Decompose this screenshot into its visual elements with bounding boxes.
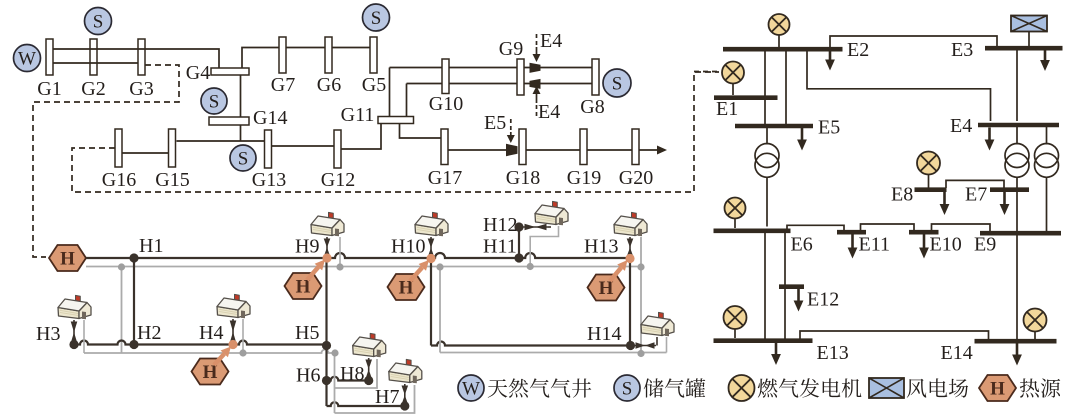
compressor on G9-G8 lower pipe <box>530 79 541 89</box>
node G13 bar <box>265 130 272 168</box>
heat return row H3-H5 <box>84 350 335 354</box>
heat return H9 <box>339 237 341 267</box>
node H12 <box>514 222 523 231</box>
heat supply H13-H14 <box>629 259 631 346</box>
svg-text:G17: G17 <box>428 167 462 189</box>
house load H12 <box>523 201 568 230</box>
svg-text:H14: H14 <box>587 323 621 345</box>
wire E6-E11 <box>787 225 844 230</box>
bus E5 <box>735 124 813 129</box>
node H8 <box>364 376 373 385</box>
label H9 <box>295 236 319 258</box>
bus E8 <box>915 187 947 192</box>
heat supply H1-H2 <box>133 258 135 345</box>
bus E3 <box>985 46 1063 51</box>
node H10 orange <box>426 254 435 263</box>
dashed gas-to-heat coupling G3 to heat source <box>33 65 179 257</box>
legend label wind farm <box>907 378 968 397</box>
label E14 <box>941 342 973 364</box>
svg-text:H4: H4 <box>199 322 223 344</box>
natural gas well W at G1 <box>14 45 41 72</box>
svg-text:H5: H5 <box>295 322 319 344</box>
node G9 bar <box>517 59 524 95</box>
wind farm at E3 <box>1011 16 1047 47</box>
node H1 <box>129 253 138 262</box>
label G2 <box>81 78 105 100</box>
gas generator at E6 <box>725 198 746 229</box>
heat source hexagon at H13 <box>588 275 625 301</box>
load arrow at E13 <box>771 343 781 366</box>
pipe G9-G8 lower <box>524 83 592 85</box>
svg-text:E5: E5 <box>484 112 506 134</box>
label G18 <box>506 167 540 189</box>
heat source hexagon at H9 <box>285 273 322 299</box>
node G11 bar <box>378 117 414 124</box>
svg-text:S: S <box>622 379 633 400</box>
pipe G11-G17 <box>400 124 443 139</box>
label H11 <box>483 236 517 258</box>
label E4 drive upper <box>533 30 563 62</box>
pipe G1-G3 upper and riser to G4 <box>53 49 219 68</box>
bus E6 <box>714 229 791 234</box>
heat arrow into H13 <box>610 260 628 281</box>
bus E13 <box>714 338 813 343</box>
gas generator at E2 <box>769 14 790 47</box>
label G4 <box>186 62 210 84</box>
svg-text:G6: G6 <box>317 74 341 96</box>
svg-text:G5: G5 <box>362 74 386 96</box>
svg-text:G3: G3 <box>129 78 153 100</box>
load arrow at E12 <box>794 289 804 312</box>
svg-text:S: S <box>612 74 623 95</box>
node G3 bar <box>138 39 145 75</box>
node G18 bar <box>519 129 526 165</box>
svg-text:H3: H3 <box>36 323 60 345</box>
svg-text:G4: G4 <box>186 62 210 84</box>
heat return H13 drop <box>640 237 642 353</box>
house load H4 <box>217 294 250 344</box>
label G15 <box>155 169 189 191</box>
heat supply H12-H11 <box>518 227 520 258</box>
node H14 <box>626 341 635 350</box>
wire E3-E4 via transformer column <box>1016 51 1018 122</box>
load arrow at E10 <box>919 234 929 259</box>
gas generator at E13 <box>724 306 747 338</box>
gas storage S at G5 <box>363 4 390 31</box>
svg-text:H1: H1 <box>139 235 163 257</box>
house load H8 <box>353 333 386 380</box>
svg-text:G7: G7 <box>271 74 295 96</box>
gas generator at E1 <box>694 62 744 96</box>
pipe G12-G11 <box>341 124 381 150</box>
return junction 1 <box>118 263 125 270</box>
label G11 <box>341 104 375 126</box>
label G20 <box>619 167 653 189</box>
label G6 <box>317 74 341 96</box>
return junction 4 <box>527 263 534 270</box>
label H8 <box>340 363 364 385</box>
legend label gas generator <box>758 378 862 397</box>
gas generator at E14 <box>1024 309 1047 340</box>
label E8 <box>891 184 913 206</box>
pipe G11-G10-G9 upper <box>390 67 518 69</box>
wire E11-E10 <box>861 224 915 231</box>
heat arrow into H10 <box>410 260 429 281</box>
heat supply main top <box>86 253 630 258</box>
label G14 <box>253 107 287 129</box>
legend gas storage symbol <box>614 375 640 401</box>
label E11 <box>859 234 890 256</box>
node G12 bar <box>334 130 341 168</box>
load arrow at E4 <box>985 128 995 151</box>
node H9 orange <box>322 253 331 262</box>
heat return main top <box>86 266 641 268</box>
label H1 <box>139 235 163 257</box>
house load H7 <box>389 359 422 406</box>
gas generator at E8 <box>917 152 940 189</box>
svg-text:E12: E12 <box>807 289 839 311</box>
label G10 <box>429 93 463 115</box>
label E2 <box>847 39 869 61</box>
label E7 <box>965 184 987 206</box>
heat return H12 <box>530 226 558 267</box>
svg-text:E5: E5 <box>818 117 840 139</box>
svg-text:S: S <box>209 92 220 113</box>
load arrow at E8 <box>940 192 950 216</box>
svg-text:G19: G19 <box>567 167 601 189</box>
bus E4 <box>978 123 1059 128</box>
bus E7 <box>990 187 1029 192</box>
svg-text:E13: E13 <box>817 342 849 364</box>
wire E10-E9 <box>932 224 991 232</box>
node G16 bar <box>115 129 122 167</box>
svg-text:E7: E7 <box>965 184 987 206</box>
house load H3 <box>58 295 91 344</box>
gas storage S below G14 <box>230 145 256 171</box>
pipe G17-G18 with compressor <box>448 149 519 151</box>
wire E13-E14 <box>800 331 989 340</box>
label H7 <box>375 386 399 408</box>
label H6 <box>296 365 320 387</box>
label E10 <box>930 234 962 256</box>
label E5 drive <box>484 112 515 143</box>
svg-text:E2: E2 <box>847 39 869 61</box>
heat source hexagon at H10 <box>388 274 425 300</box>
node H3 <box>69 340 78 349</box>
dashed gas-to-E1 coupling <box>72 72 719 192</box>
pipe G4 to G5 top row <box>242 48 370 69</box>
bus E10 <box>909 230 939 235</box>
svg-text:G11: G11 <box>341 104 375 126</box>
svg-text:E3: E3 <box>951 39 973 61</box>
label H10 <box>391 236 425 258</box>
heat return H10 drop and run to H14 <box>440 267 667 353</box>
bus E12 <box>779 284 804 289</box>
label E5 <box>818 117 840 139</box>
svg-text:H7: H7 <box>375 386 399 408</box>
svg-text:W: W <box>462 379 480 400</box>
svg-text:H9: H9 <box>295 236 319 258</box>
svg-text:G12: G12 <box>321 169 355 191</box>
label G13 <box>252 169 286 191</box>
load arrow at E3 <box>1040 51 1050 72</box>
label H12 <box>483 214 517 236</box>
svg-text:G1: G1 <box>37 78 61 100</box>
label E3 <box>951 39 973 61</box>
svg-text:G18: G18 <box>506 167 540 189</box>
label G5 <box>362 74 386 96</box>
svg-text:H: H <box>990 379 1005 400</box>
load arrow at E14 <box>1012 343 1022 366</box>
label E4 drive lower <box>533 86 561 123</box>
node G2 bar <box>90 39 97 75</box>
pipe G14 riser and G15-G13 run <box>177 125 265 141</box>
wire E6-E12-E13 <box>784 233 786 340</box>
load arrow at E2 <box>825 52 835 71</box>
pipe G18-G19-G20 and outflow arrow <box>526 146 667 155</box>
label G8 <box>580 96 604 118</box>
pipe G16-G15 <box>122 152 169 154</box>
heat supply H9-H5-H6 <box>325 258 327 381</box>
return junction 3 <box>436 263 443 270</box>
svg-text:H13: H13 <box>584 236 618 258</box>
heat arrow into H4 <box>214 347 231 366</box>
svg-text:G8: G8 <box>580 96 604 118</box>
heat source hexagon inline left <box>49 245 86 271</box>
heat return H14 house <box>666 337 668 353</box>
load arrow at E11 <box>848 234 858 259</box>
svg-text:E4: E4 <box>540 30 562 52</box>
svg-text:G9: G9 <box>499 38 523 60</box>
svg-text:E14: E14 <box>941 342 973 364</box>
svg-text:E6: E6 <box>791 234 813 256</box>
bus E2 <box>723 47 843 52</box>
heat supply H10 drop and run to H14 <box>431 259 631 346</box>
svg-text:E4: E4 <box>950 115 972 137</box>
svg-text:E11: E11 <box>859 234 890 256</box>
svg-text:G14: G14 <box>253 107 287 129</box>
label E12 <box>807 289 839 311</box>
svg-text:G2: G2 <box>81 78 105 100</box>
legend natural gas well symbol <box>458 375 484 401</box>
heat return drop H5 to bottom <box>334 353 336 413</box>
label E13 <box>817 342 849 364</box>
label G12 <box>321 169 355 191</box>
label G1 <box>37 78 61 100</box>
bus E14 <box>975 339 1057 344</box>
load arrow at E5 <box>797 128 807 151</box>
bus E11 <box>837 230 866 235</box>
heat return bottom to H7 house <box>335 385 415 413</box>
return junction 6 <box>239 349 246 356</box>
svg-text:G13: G13 <box>252 169 286 191</box>
pipe G13-G12 <box>272 145 335 147</box>
svg-text:S: S <box>93 12 104 33</box>
node H7 <box>400 401 409 410</box>
pipe G1-G3 lower <box>53 62 138 64</box>
label H2 <box>137 322 161 344</box>
svg-text:H12: H12 <box>483 214 517 236</box>
bus E1 <box>714 95 778 100</box>
heat arrow into H9 <box>307 260 325 281</box>
svg-text:G16: G16 <box>102 169 136 191</box>
pipe risers G11 to upper pair <box>390 68 407 117</box>
return junction 7 <box>331 349 338 356</box>
return junction 5 <box>637 263 644 270</box>
wire E2-E1-E5 <box>764 52 766 125</box>
svg-text:H11: H11 <box>483 236 517 258</box>
node H4 orange <box>228 340 237 349</box>
gas storage S at G8 <box>603 69 631 97</box>
node G6 bar <box>325 37 332 73</box>
heat return drop near H1 <box>121 267 123 353</box>
heat source hexagon at H4 <box>192 359 229 385</box>
node H6 <box>322 376 331 385</box>
svg-text:W: W <box>18 49 36 70</box>
label H5 <box>295 322 319 344</box>
svg-text:E8: E8 <box>891 184 913 206</box>
legend wind farm symbol <box>869 378 904 398</box>
wire E6-E13 <box>764 233 766 340</box>
return junction 8 <box>637 350 644 357</box>
legend gas generator symbol <box>729 375 755 401</box>
heat supply row H3-H5 <box>74 341 326 345</box>
legend label heat source <box>1020 378 1060 397</box>
wire E2-E4 <box>807 52 991 122</box>
node H13 orange <box>625 254 634 263</box>
node G19 bar <box>580 129 587 165</box>
label G16 <box>102 169 136 191</box>
label H3 <box>36 323 60 345</box>
label E6 <box>791 234 813 256</box>
bus E9 <box>980 231 1061 236</box>
svg-text:S: S <box>238 149 249 170</box>
house load H9 <box>311 212 344 258</box>
transformer E5-E6 <box>755 128 779 227</box>
legend heat source symbol <box>979 375 1016 401</box>
legend label gas storage <box>644 378 706 397</box>
label G17 <box>428 167 462 189</box>
svg-text:E9: E9 <box>974 234 996 256</box>
node H5 <box>322 341 331 350</box>
heat return to H8 house <box>335 359 378 388</box>
label G9 <box>499 38 523 60</box>
svg-text:H2: H2 <box>137 322 161 344</box>
pipe G11-G10-G9 lower <box>407 83 518 85</box>
svg-text:E10: E10 <box>930 234 962 256</box>
heat supply H6 branch to H8 <box>327 377 369 381</box>
house load H13 <box>614 212 647 258</box>
wire E2-E3 <box>830 36 997 47</box>
label G7 <box>271 74 295 96</box>
node H11 <box>514 253 523 262</box>
label G3 <box>129 78 153 100</box>
node G15 bar <box>169 129 176 167</box>
pipe G9-G8 upper <box>524 67 592 69</box>
node G5 bar <box>370 37 377 73</box>
label E4 <box>950 115 972 137</box>
node G14 bar <box>209 117 249 125</box>
svg-text:H6: H6 <box>296 365 320 387</box>
node G4 bar <box>211 68 249 75</box>
svg-text:E1: E1 <box>716 98 738 120</box>
node G8 bar <box>592 59 599 95</box>
svg-text:H: H <box>60 249 75 270</box>
house load H14 <box>634 312 674 348</box>
transformer E4-E9 <box>1035 127 1059 232</box>
svg-text:S: S <box>371 8 382 29</box>
compressor on G17-G18 pipe <box>506 144 518 156</box>
node H2 <box>129 340 138 349</box>
label H4 <box>199 322 223 344</box>
svg-text:E4: E4 <box>538 101 560 123</box>
return junction 2 <box>336 263 343 270</box>
svg-text:G15: G15 <box>155 169 189 191</box>
label E1 <box>716 98 738 120</box>
pipe G4-G14 <box>240 75 242 117</box>
node G20 bar <box>632 129 639 165</box>
label E9 <box>974 234 996 256</box>
label H14 <box>587 323 621 345</box>
house load H10 <box>415 212 448 258</box>
node G7 bar <box>279 37 286 73</box>
svg-text:H10: H10 <box>391 236 425 258</box>
node G17 bar <box>441 129 448 165</box>
wire E8-E7 <box>946 180 1004 188</box>
heat supply H6 drop and run to H7 <box>327 381 405 407</box>
load arrow at E7 <box>1000 192 1010 216</box>
transformer E4-E7 <box>1005 127 1029 340</box>
wire E2-E5 <box>785 52 787 125</box>
heat return H4 <box>242 319 244 353</box>
legend label natural gas well <box>488 378 592 397</box>
node G1 bar <box>46 39 53 75</box>
label H13 <box>584 236 618 258</box>
heat return H3 <box>83 320 85 353</box>
svg-text:H8: H8 <box>340 363 364 385</box>
svg-text:G20: G20 <box>619 167 653 189</box>
gas storage S above G14 <box>201 88 227 114</box>
compressor on G9-G8 upper pipe <box>530 63 541 73</box>
node G10 bar <box>442 59 449 94</box>
label G19 <box>567 167 601 189</box>
gas storage S at G2 <box>85 8 112 35</box>
svg-text:G10: G10 <box>429 93 463 115</box>
